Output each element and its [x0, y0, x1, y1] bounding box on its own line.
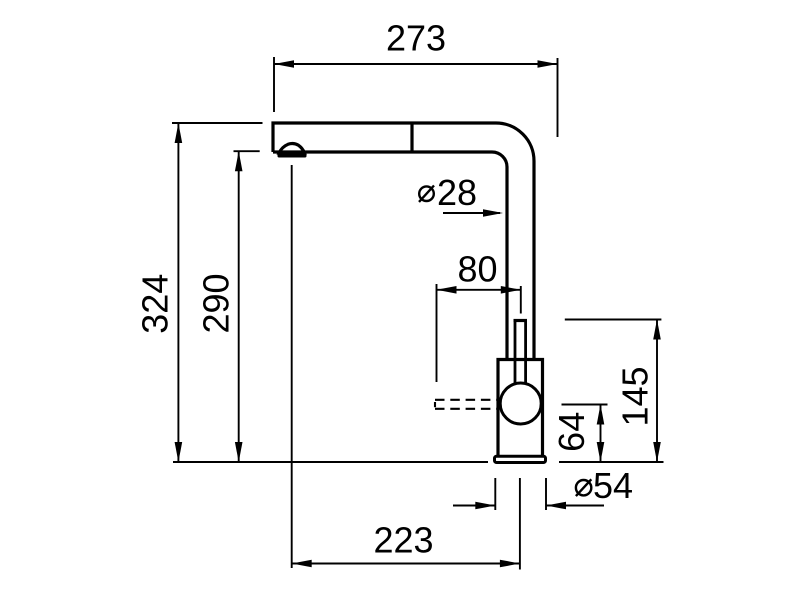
svg-text:64: 64	[551, 412, 592, 452]
svg-text:223: 223	[373, 520, 433, 561]
svg-text:80: 80	[457, 248, 497, 289]
svg-text:28: 28	[437, 172, 477, 213]
svg-text:324: 324	[135, 274, 176, 334]
svg-text:54: 54	[593, 465, 633, 506]
svg-text:273: 273	[386, 18, 446, 59]
svg-text:145: 145	[615, 366, 656, 426]
svg-text:290: 290	[196, 273, 237, 333]
